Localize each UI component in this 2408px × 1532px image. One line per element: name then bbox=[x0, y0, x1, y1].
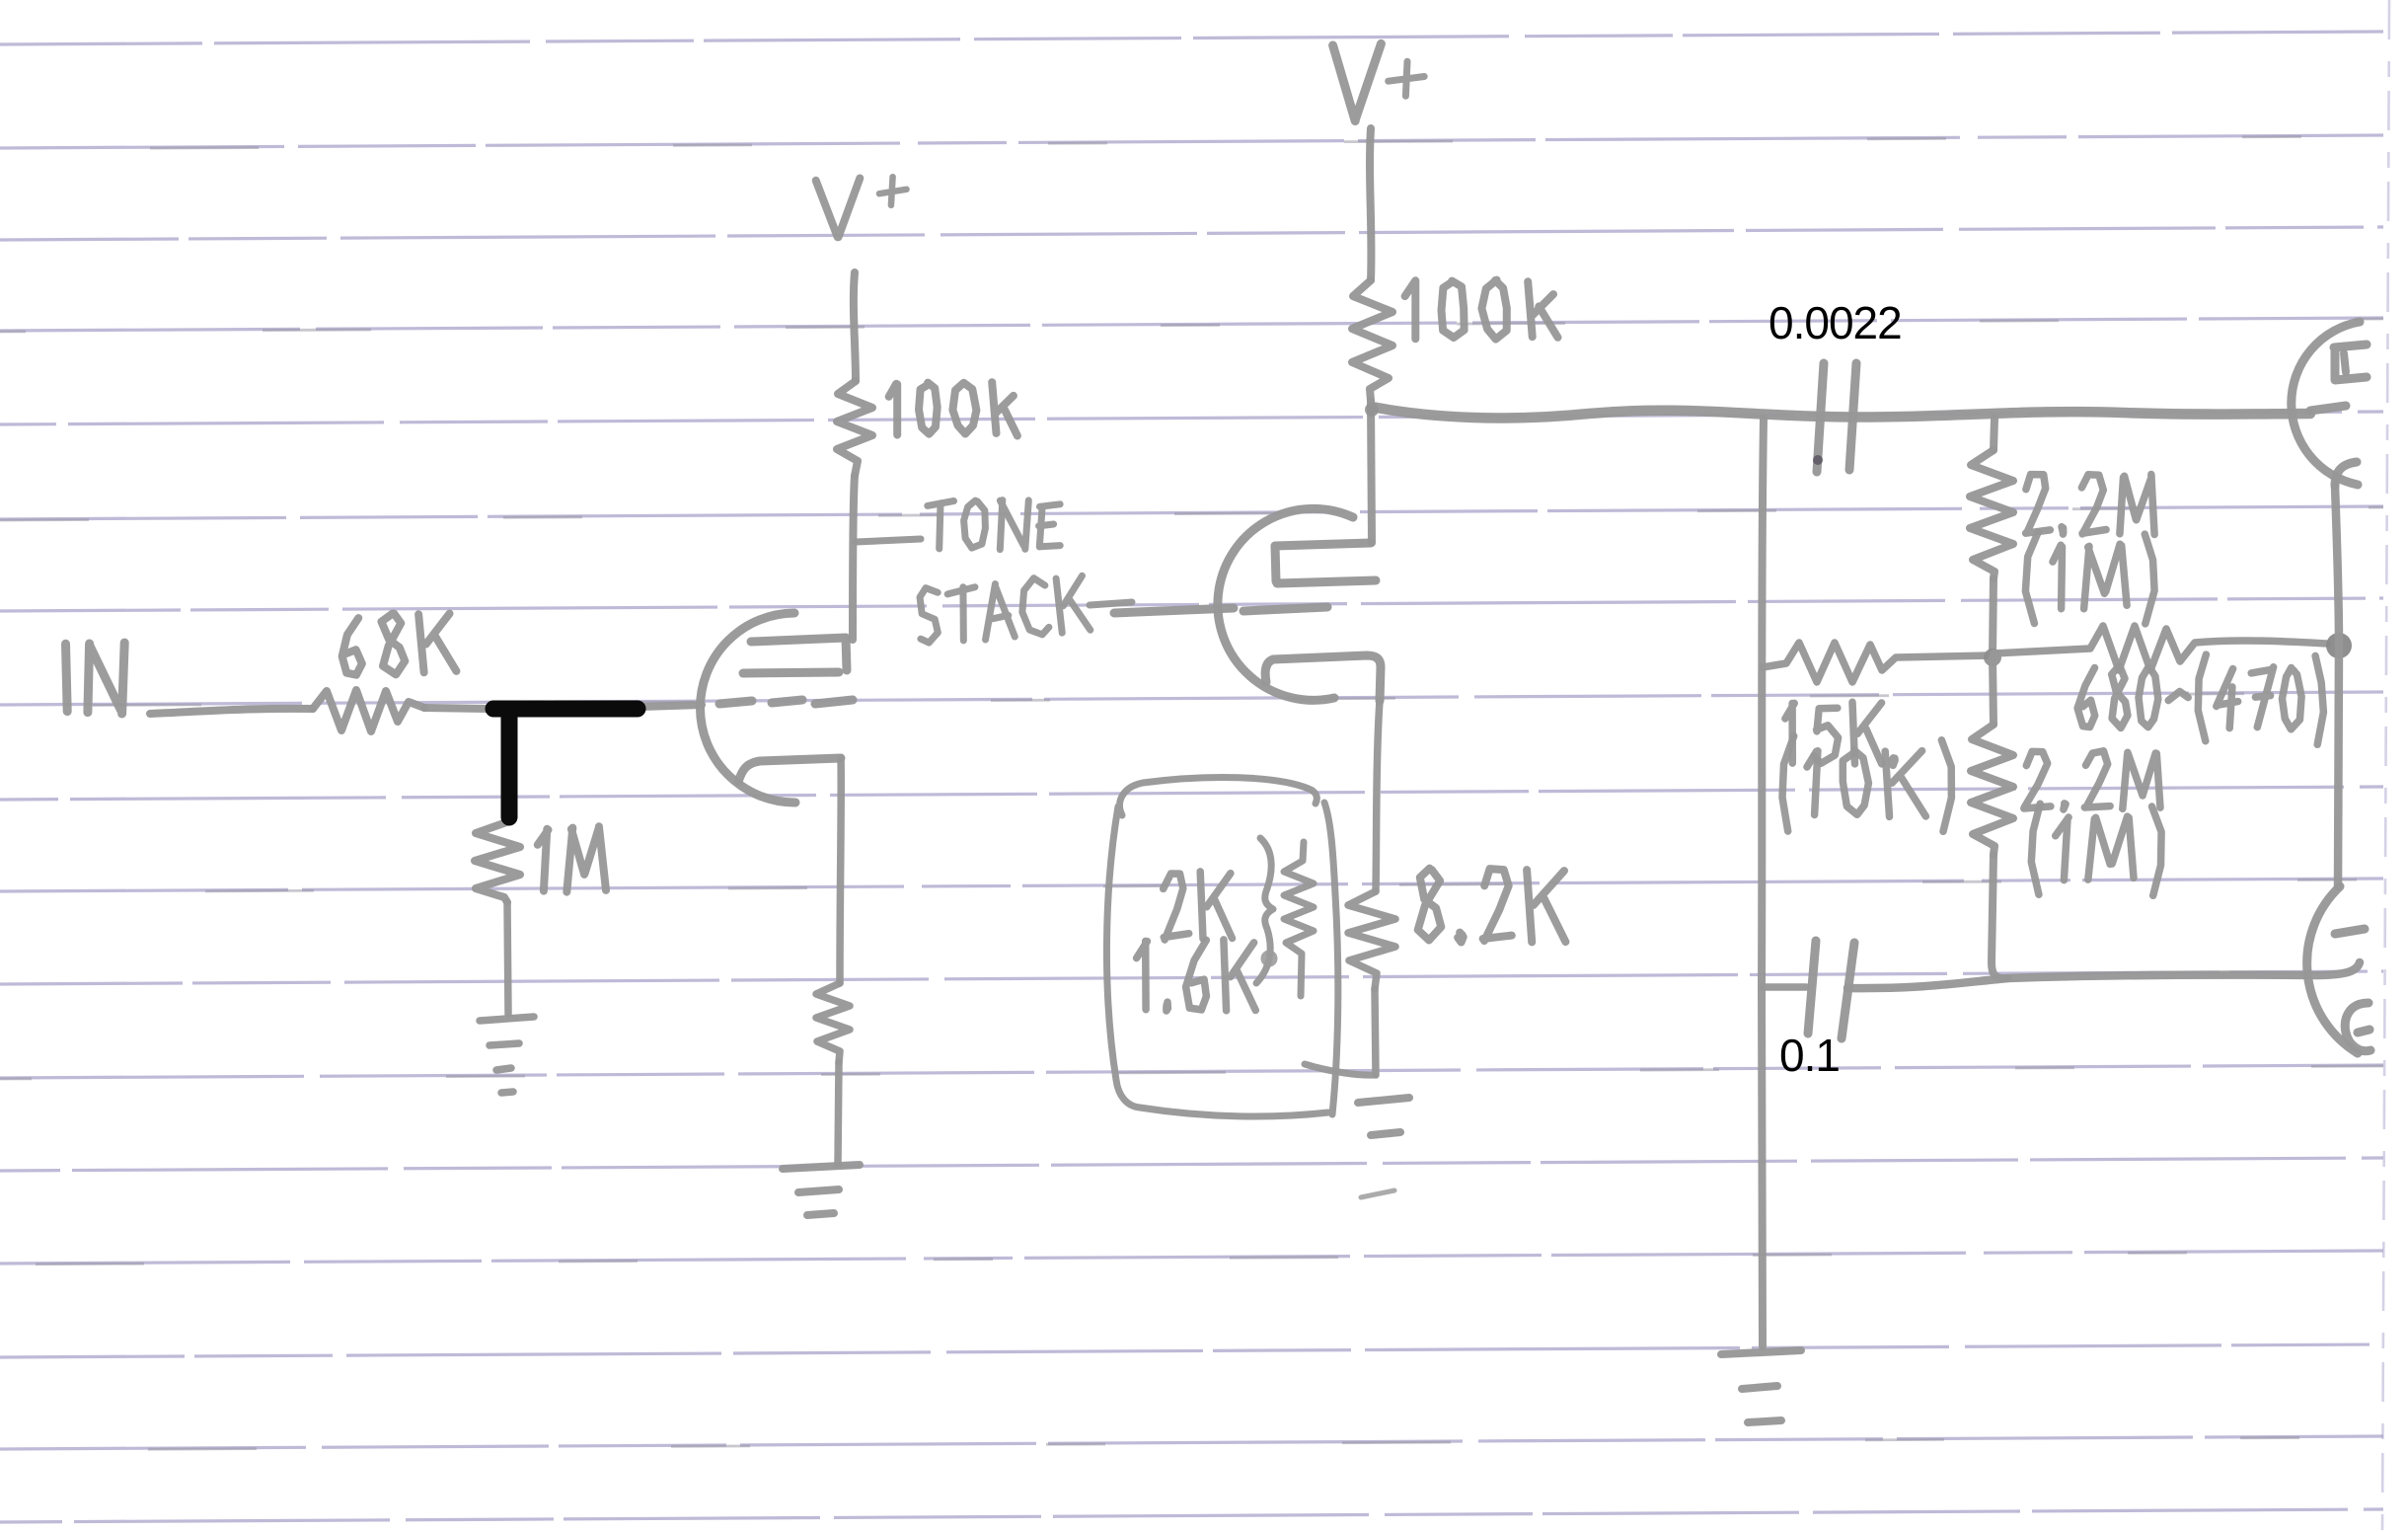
wire: 8.2K to ground bbox=[1375, 989, 1376, 1075]
resistor 8.2K (V2 cathode) bbox=[1348, 891, 1395, 989]
triode V1 envelope arc bbox=[700, 613, 795, 803]
triode V3 plate (partial) bbox=[2334, 345, 2367, 380]
capacitor value 0.1 typed label bbox=[1779, 1029, 1840, 1082]
ground below 1K bbox=[783, 1165, 860, 1215]
wire: 100K down to V1 plate bbox=[853, 476, 855, 640]
wire: rail to 0.1 left plate bbox=[1763, 983, 1806, 991]
wire: V1 cathode down to 1K bbox=[840, 758, 841, 983]
power V+ label (left) bbox=[816, 179, 861, 238]
alternate value (1M) label (upper) bbox=[2025, 532, 2154, 624]
triode V4 grid dash bbox=[2335, 929, 2365, 934]
resistor 1M (grid leak) bbox=[475, 821, 520, 902]
wire: middle rail junction down bbox=[1993, 657, 1994, 725]
alternate value (10K) label bbox=[1782, 736, 1951, 832]
capacitor 0.0022 plates bbox=[1817, 363, 1856, 472]
capacitor value 0.0022 typed label bbox=[1768, 296, 1902, 349]
triode V3 grid dash bbox=[2310, 406, 2346, 411]
ground below 8.2K bbox=[1358, 1098, 1409, 1135]
wire: middle rail down and bend right at bottom bbox=[1992, 855, 2008, 978]
dark speck on 0.0022 left plate bbox=[1813, 455, 1823, 465]
resistor 100K value label (top) bbox=[1405, 280, 1558, 340]
resistor 15K horizontal bbox=[1763, 643, 1992, 682]
resistor 100K value label (left) bbox=[889, 382, 1017, 435]
wire: 0.1 right plate along bottom to V4 bbox=[1847, 962, 2360, 988]
triode V2 envelope arc bbox=[1218, 508, 1353, 700]
resistor 68K (series input) bbox=[313, 690, 424, 731]
annotation cloud around alternate cathode values bbox=[1106, 777, 1337, 1116]
triode V1 cathode bbox=[738, 758, 841, 782]
capacitor 0.1 plates bbox=[1808, 941, 1854, 1038]
junction blob middle rail bbox=[1984, 649, 2001, 666]
wire: STACK label dash to V2 grid bbox=[1090, 602, 1132, 605]
triode V2 grid (dashed) bbox=[1114, 607, 1327, 613]
junction blob at V2 plate / top wire bbox=[1365, 403, 1379, 417]
node IN label bbox=[66, 643, 125, 714]
resistor 2.2M upper (vertical) bbox=[1970, 450, 2013, 578]
resistor 15K value label bbox=[1785, 702, 1895, 765]
junction dot at right rail bbox=[2326, 633, 2352, 658]
ground below 1M bbox=[480, 1017, 534, 1093]
wire: 100K to V2 plate / output node bbox=[1371, 401, 1372, 543]
triode V3 plate inner tick bbox=[2344, 353, 2346, 372]
triode V3 (right edge, partial) envelope arc bbox=[2292, 322, 2360, 485]
resistor 1M value label bbox=[538, 826, 606, 891]
wire: middle rail to junction bbox=[1993, 578, 1994, 655]
resistor 100K (V1 plate load) bbox=[837, 381, 872, 476]
alternate value 1.6K label bbox=[1137, 940, 1256, 1011]
small circle mark after 1.6K bbox=[1263, 953, 1275, 964]
triode V1 plate bbox=[743, 638, 847, 673]
resistor 2.2M value label (lower) bbox=[2024, 751, 2160, 809]
triode V3 cathode bbox=[2335, 462, 2357, 486]
resistor 680 horizontal to right rail bbox=[1994, 626, 2327, 670]
tick: plate node to TONE STACK label bbox=[856, 539, 921, 542]
triode V2 plate bbox=[1275, 543, 1376, 583]
resistor 8.2K value label bbox=[1418, 869, 1566, 943]
resistor 680 value label with alternate (470) bbox=[2077, 654, 2323, 744]
middle rail top segment bbox=[1994, 419, 1994, 450]
black marker junction T at V1 grid bbox=[493, 701, 638, 718]
triode V2 cathode bbox=[1265, 655, 1381, 701]
alternate cathode resistor (inside cloud) bbox=[1256, 838, 1273, 983]
ground below left rail bbox=[1721, 1350, 1801, 1422]
power V+ label (top) bbox=[1333, 43, 1382, 120]
triode V4 plate glyph (partial) bbox=[2345, 1003, 2370, 1051]
wire: cloud resistor to cathode line bbox=[1305, 1064, 1376, 1075]
wire: node to tube V1 grid bbox=[641, 705, 702, 707]
stray pencil mark below ground bbox=[1361, 1190, 1394, 1197]
resistor 100K (V2 plate load) bbox=[1352, 280, 1392, 401]
resistor 2.2M value label (upper) bbox=[2026, 475, 2155, 535]
resistor 68K value label bbox=[340, 610, 457, 677]
wire: 1M to ground bbox=[507, 902, 508, 1014]
alternate value 2K label bbox=[1164, 872, 1233, 940]
wire: V+ top down to 100K bbox=[1370, 128, 1371, 280]
wire: IN to 68K bbox=[150, 709, 313, 714]
wire: V3 cathode down right rail through junction bbox=[2335, 486, 2339, 886]
wire: V2 cathode down to 8.2K bbox=[1376, 701, 1380, 891]
triode V4 (bottom right, partial) envelope arc bbox=[2307, 886, 2358, 1053]
wire: 1K to ground bbox=[838, 1062, 839, 1164]
label TONE bbox=[928, 500, 1060, 550]
resistor 2.2M lower (vertical) bbox=[1971, 725, 2013, 855]
resistor 1K (cathode) bbox=[816, 983, 850, 1062]
wire: V+ left down to 100K bbox=[854, 272, 856, 381]
wire: 68K to grid node bbox=[424, 708, 489, 709]
label STACK bbox=[916, 574, 1090, 646]
triode V1 grid (dashed) bbox=[719, 700, 853, 704]
alternate value (1M) label (lower) bbox=[2031, 804, 2161, 895]
wire: left rail down from top wire bbox=[1762, 419, 1764, 1346]
wire: output node long top wire to right bbox=[1372, 407, 2310, 418]
